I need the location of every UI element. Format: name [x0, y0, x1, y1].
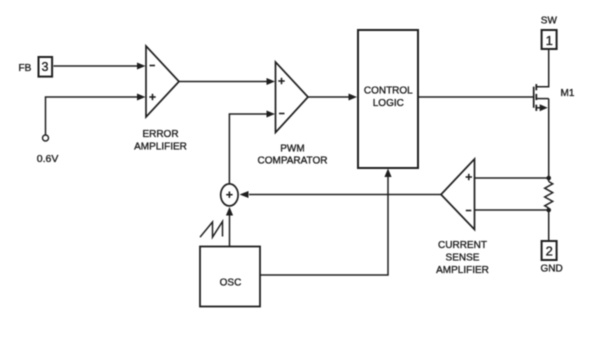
- svg-text:GND: GND: [541, 264, 563, 275]
- svg-text:COMPARATOR: COMPARATOR: [257, 156, 327, 167]
- svg-text:M1: M1: [561, 88, 575, 99]
- wire current sense amp output to summing node: [240, 191, 442, 198]
- wire OSC output to control logic: [260, 169, 392, 276]
- op-amp U4 current sense amplifier: [436, 159, 489, 276]
- svg-text:3: 3: [42, 60, 49, 74]
- svg-text:AMPLIFIER: AMPLIFIER: [436, 265, 489, 276]
- oscillator block OSC: [200, 247, 260, 307]
- wire 0.6V to error amp non-inverting input: [46, 94, 146, 136]
- svg-text:PWM: PWM: [280, 144, 304, 155]
- op-amp U1 error amplifier: [134, 46, 187, 152]
- node junction bottom of resistor: [546, 208, 551, 213]
- op-amp U2 PWM comparator: [257, 62, 327, 167]
- wire PWM comparator output to control logic: [308, 94, 357, 101]
- wire OSC to summing node: [226, 207, 233, 247]
- svg-text:AMPLIFIER: AMPLIFIER: [134, 141, 187, 152]
- wire resistor bottom to current sense amp - input: [475, 209, 549, 211]
- svg-text:SW: SW: [541, 16, 558, 27]
- node SW label: [541, 16, 558, 27]
- svg-text:OSC: OSC: [220, 278, 242, 289]
- pin 1 (SW) box: [542, 30, 557, 49]
- pin 3 (FB) box: [39, 57, 53, 77]
- svg-text:0.6V: 0.6V: [37, 153, 59, 165]
- svg-text:LOGIC: LOGIC: [373, 98, 404, 109]
- node junction top of resistor: [546, 176, 551, 181]
- svg-text:FB: FB: [19, 63, 32, 74]
- svg-text:1: 1: [546, 33, 553, 48]
- wire M1 source down to sense resistor: [548, 99, 550, 182]
- wire resistor top to current sense amp + input: [475, 177, 549, 179]
- transistor M1 NMOS: [534, 49, 575, 111]
- node FB label: [19, 63, 32, 74]
- pin 2 (GND) box: [542, 241, 557, 260]
- svg-text:CONTROL: CONTROL: [364, 86, 413, 97]
- wire FB to error amp inverting input: [54, 63, 146, 70]
- svg-text:CURRENT: CURRENT: [438, 240, 487, 251]
- node GND label: [541, 264, 563, 275]
- control logic block U3: [358, 30, 418, 168]
- sawtooth waveform symbol: [200, 222, 223, 238]
- wire control logic output to M1 gate: [418, 96, 534, 98]
- resistor R1 sense: [545, 182, 553, 209]
- node summing junction: [221, 184, 238, 206]
- svg-text:SENSE: SENSE: [446, 253, 480, 264]
- wire summing node to PWM comparator - input: [229, 111, 275, 184]
- svg-text:ERROR: ERROR: [142, 129, 178, 140]
- wire resistor to GND pin: [548, 208, 550, 241]
- svg-text:2: 2: [546, 244, 553, 259]
- node 0.6V reference terminal: [37, 135, 59, 165]
- wire error amp output to PWM comparator: [179, 78, 275, 85]
